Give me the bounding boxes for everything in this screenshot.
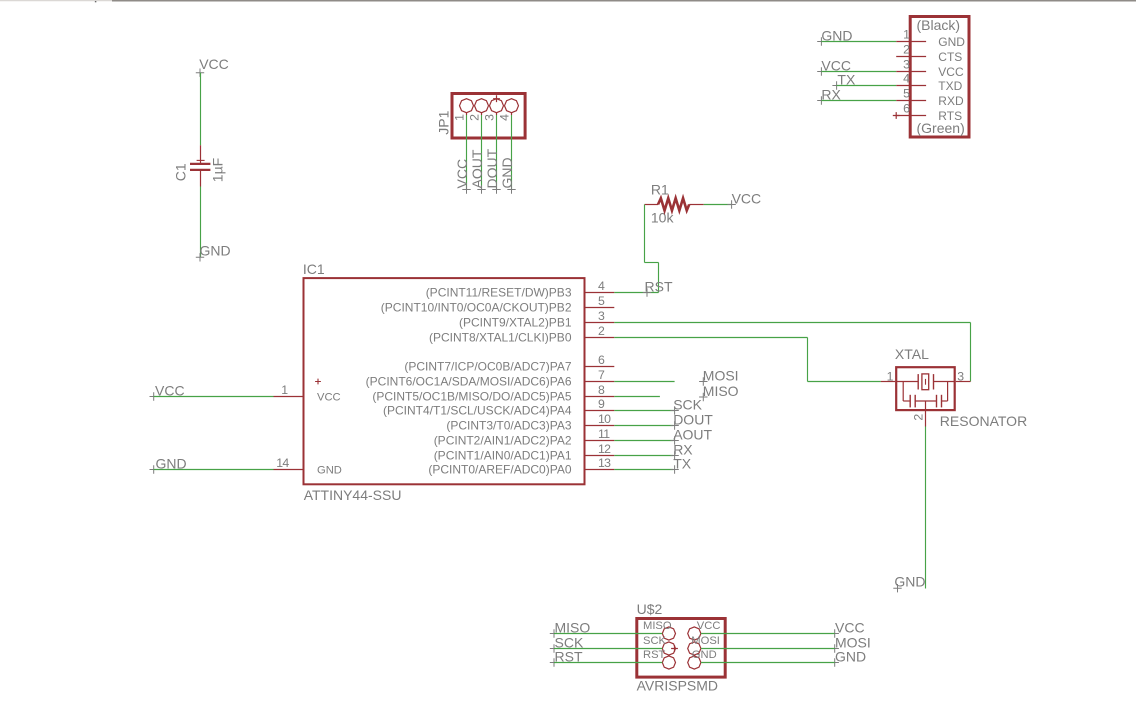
svg-text:MISO: MISO [643,620,672,632]
node VCC (C1 top) [196,69,204,77]
svg-text:R1: R1 [651,181,669,197]
connector U$2 pad L1 [662,627,675,640]
connector U$2 pad L2 [662,642,675,655]
svg-text:TX: TX [673,456,692,472]
svg-text:5: 5 [598,294,605,308]
svg-text:8: 8 [598,383,605,397]
svg-text:10k: 10k [651,210,675,226]
pin 2 CTS (FTDI) [896,56,926,58]
svg-text:3: 3 [903,57,910,71]
wire [614,322,970,324]
node GND (C1 bottom) [196,253,204,261]
pin 6 RTS (FTDI) [896,115,926,117]
resistor R1 pin [689,204,704,206]
wire [614,396,660,398]
connector U$2 pad L3 [662,656,675,669]
wire [112,0,1136,2]
svg-text:RESONATOR: RESONATOR [940,413,1027,429]
svg-text:(PCINT5/OC1B/MISO/DO/ADC5)PA5: (PCINT5/OC1B/MISO/DO/ADC5)PA5 [372,390,571,404]
pin 3 stub (IC1) [586,322,615,324]
wire [614,440,673,442]
net label TX [832,81,840,89]
junction + on JP1 pad 3 [493,95,500,102]
svg-text:MOSI: MOSI [703,368,739,384]
wire [701,648,835,650]
svg-text:3: 3 [483,114,497,121]
wire [808,381,881,383]
resistor R1 pin [645,204,659,206]
wire [496,113,498,115]
svg-text:(PCINT11/RESET/DW)PB3: (PCINT11/RESET/DW)PB3 [426,286,572,300]
wire [154,396,274,398]
net label TX [670,465,678,473]
wire [701,662,835,664]
net label MISO [699,393,707,401]
svg-text:(PCINT2/AIN1/ADC2)PA2: (PCINT2/AIN1/ADC2)PA2 [434,434,572,448]
svg-text:4: 4 [903,71,910,85]
wire [645,262,659,264]
svg-text:10: 10 [598,412,611,426]
wire [821,41,896,43]
svg-text:GND: GND [894,574,925,590]
net label VCC (U$2 right) [831,629,839,637]
connector U$2 pad R3 [688,656,701,669]
net label GND [817,37,825,45]
svg-text:2: 2 [903,42,910,56]
svg-text:(PCINT0/AREF/ADC0)PA0: (PCINT0/AREF/ADC0)PA0 [428,463,571,477]
wire [658,263,660,293]
svg-text:13: 13 [598,456,611,470]
net label VCC (JP1 pin 1) [462,185,470,193]
svg-text:SCK: SCK [673,397,702,413]
net label RX [817,96,825,104]
svg-text:6: 6 [903,101,910,115]
svg-text:1: 1 [453,114,467,121]
pin 5 RXD (FTDI) [896,100,926,102]
svg-text:VCC: VCC [454,159,470,189]
pin 10 stub (IC1) [586,425,615,427]
wire [200,187,202,258]
capacitor C1 pin [200,145,202,163]
pin 3 VCC (FTDI) [896,71,926,73]
svg-text:(PCINT1/AIN0/ADC1)PA1: (PCINT1/AIN0/ADC1)PA1 [434,449,572,463]
svg-text:12: 12 [598,442,611,456]
wire [614,337,807,339]
pin 3 stub (XTAL) [956,381,971,383]
svg-text:AOUT: AOUT [673,427,712,443]
connector JP1 pad 2 [475,99,489,113]
svg-text:(PCINT9/XTAL2)PB1: (PCINT9/XTAL2)PB1 [459,316,572,330]
svg-text:11: 11 [598,427,610,441]
pin 4 TXD (FTDI) [896,85,926,87]
net label AOUT (JP1 pin 2) [477,185,485,193]
pin 1 GND (FTDI) [896,41,926,43]
svg-text:GND: GND [835,649,866,665]
connector JP1 body [452,94,525,139]
svg-text:AOUT: AOUT [469,149,485,188]
net label RST [643,288,651,296]
svg-text:(PCINT4/T1/SCL/USCK/ADC4)PA4: (PCINT4/T1/SCL/USCK/ADC4)PA4 [383,404,572,418]
svg-text:1µF: 1µF [210,158,226,182]
svg-text:C1: C1 [173,163,189,181]
net label DOUT (JP1 pin 3) [492,185,500,193]
svg-text:4: 4 [598,279,605,293]
svg-text:(PCINT8/XTAL1/CLKI)PB0: (PCINT8/XTAL1/CLKI)PB0 [429,331,572,345]
svg-text:2: 2 [468,114,482,121]
wire [554,662,662,664]
connector FTDI body [910,17,969,138]
wire [614,381,674,383]
net label RST (U$2 left) [550,658,558,666]
wire [614,455,673,457]
pin 2 stub (IC1) [586,337,615,339]
svg-text:DOUT: DOUT [673,412,713,428]
svg-text:GND: GND [200,243,231,259]
net label SCK (U$2 left) [550,644,558,652]
svg-text:AVRISPSMD: AVRISPSMD [637,678,718,694]
svg-text:JP1: JP1 [436,110,452,134]
wire [481,113,483,115]
svg-text:6: 6 [598,353,605,367]
svg-text:(PCINT10/INT0/OC0A/CKOUT)PB2: (PCINT10/INT0/OC0A/CKOUT)PB2 [381,301,572,315]
svg-text:GND: GND [317,465,342,477]
connector U$2 pad R1 [688,627,701,640]
net label SCK [670,406,678,414]
svg-text:TXD: TXD [938,79,962,93]
pin 1 stub (IC1 VCC) [274,396,303,398]
svg-text:2: 2 [912,414,926,421]
svg-text:GND: GND [499,157,515,188]
svg-text:CTS: CTS [938,50,962,64]
wire [701,633,835,635]
junction + (U$2 SCK pad) [671,645,678,652]
pin 14 stub (IC1 GND) [274,469,303,471]
wire [200,73,202,146]
svg-text:4: 4 [498,114,512,121]
capacitor C1 pin tick [197,159,205,161]
connector U$2 body [637,619,725,678]
connector JP1 pad 4 [505,99,519,113]
svg-text:RXD: RXD [938,94,964,108]
pin 12 stub (IC1) [586,455,615,457]
net label MOSI [699,377,707,385]
svg-text:VCC: VCC [938,65,964,79]
wire [644,205,646,263]
pin 1 stub (XTAL) [881,381,895,383]
wire [154,469,274,471]
pin name + mark [315,379,321,385]
wire [704,204,732,206]
net label GND (IC1 left) [150,465,158,473]
net label MOSI (U$2 right) [831,644,839,652]
wire [807,338,809,382]
svg-text:(PCINT7/ICP/OC0B/ADC7)PA7: (PCINT7/ICP/OC0B/ADC7)PA7 [404,360,571,374]
svg-text:14: 14 [276,456,289,470]
pin 8 stub (IC1) [586,396,615,398]
wire [614,292,658,294]
svg-text:1: 1 [281,383,288,397]
connector U$2 pad R2 [688,642,701,655]
net label DOUT [670,421,678,429]
svg-text:ATTINY44-SSU: ATTINY44-SSU [304,487,402,503]
svg-text:GND: GND [938,35,965,49]
wire [95,1,97,2]
pin 6 end + [893,112,900,119]
wire [554,648,662,650]
svg-text:GND: GND [692,649,717,661]
svg-text:(PCINT3/T0/ADC3)PA3: (PCINT3/T0/ADC3)PA3 [446,419,571,433]
svg-text:VCC: VCC [732,191,762,207]
svg-text:RST: RST [645,279,673,295]
svg-text:VCC: VCC [697,620,721,632]
connector JP1 pad 1 [460,99,474,113]
pin 2 stub (XTAL) [925,401,927,427]
wire [821,71,896,73]
net label AOUT [670,436,678,444]
svg-text:XTAL: XTAL [895,346,929,362]
net label MISO (U$2 left) [550,629,558,637]
net label GND (U$2 right) [831,658,839,666]
wire [511,113,513,115]
wire [614,425,673,427]
svg-text:RTS: RTS [938,109,962,123]
wire [466,113,468,115]
svg-text:1: 1 [903,27,910,41]
pin 4 stub (IC1) [586,292,615,294]
pin 5 stub (IC1) [586,307,615,309]
pin 6 stub (IC1) [586,366,615,368]
svg-text:9: 9 [598,397,605,411]
wire [970,323,972,382]
pin 9 stub (IC1) [586,410,615,412]
svg-text:(Black): (Black) [917,17,961,33]
svg-text:IC1: IC1 [303,261,325,277]
pin 13 stub (IC1) [586,469,615,471]
svg-text:VCC: VCC [199,56,229,72]
net label GND (JP1 pin 4) [507,185,515,193]
IC IC1 body [304,278,585,484]
net label VCC (R1) [727,200,735,208]
net label GND (XTAL) [893,584,901,592]
svg-text:(PCINT6/OC1A/SDA/MOSI/ADC6)PA6: (PCINT6/OC1A/SDA/MOSI/ADC6)PA6 [366,375,572,389]
capacitor C1 plates [190,163,210,165]
svg-text:VCC: VCC [317,392,341,404]
svg-text:U$2: U$2 [637,601,663,617]
resonator XTAL internals [896,381,918,383]
net label VCC (IC1 left) [150,392,158,400]
svg-text:RST: RST [643,649,666,661]
wire [925,427,927,589]
wire [614,469,673,471]
resistor R1 zigzag [658,198,689,210]
svg-text:VCC: VCC [835,620,865,636]
resonator XTAL body [896,367,955,410]
pin 11 stub (IC1) [586,440,615,442]
net label VCC [817,67,825,75]
svg-text:MISO: MISO [703,383,739,399]
wire [837,85,897,87]
svg-text:DOUT: DOUT [484,148,500,188]
connector JP1 pad 3 [490,99,504,113]
net label RX [670,451,678,459]
svg-text:3: 3 [598,309,605,323]
wire [554,633,662,635]
svg-text:5: 5 [903,86,910,100]
wire [0,0,112,2]
capacitor C1 pin [200,171,202,187]
svg-text:2: 2 [598,324,605,338]
wire [821,100,896,102]
pin 7 stub (IC1) [586,381,615,383]
svg-text:MOSI: MOSI [691,635,720,647]
wire [614,410,674,412]
svg-text:7: 7 [598,368,605,382]
svg-text:SCK: SCK [643,635,667,647]
